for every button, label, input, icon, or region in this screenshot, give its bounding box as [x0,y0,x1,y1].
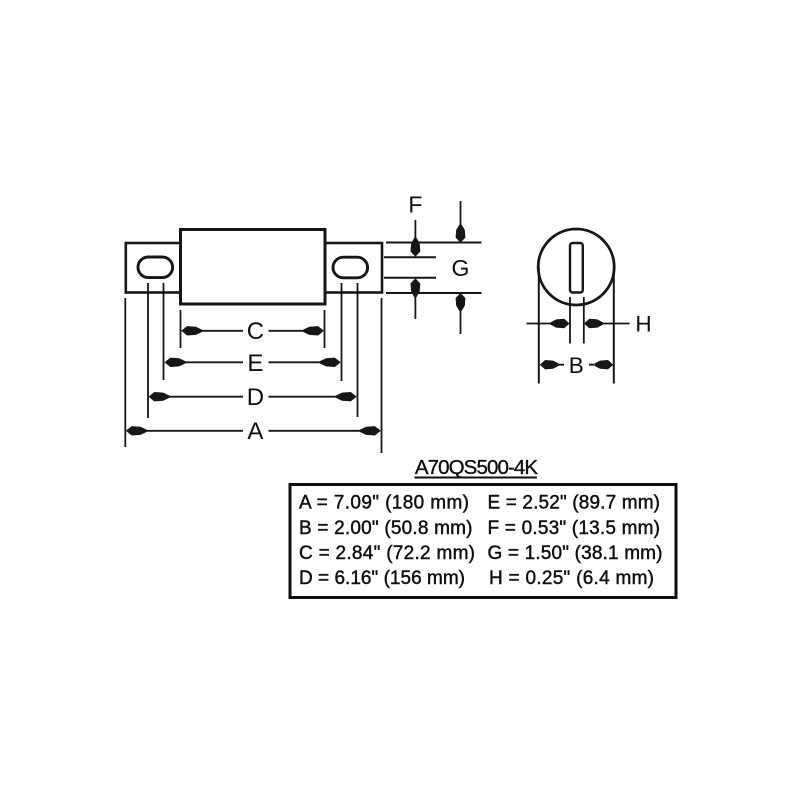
svg-text:A = 7.09" (180 mm): A = 7.09" (180 mm) [299,493,469,514]
svg-text:G: G [452,255,470,281]
svg-text:F: F [408,192,422,218]
svg-text:D: D [247,384,264,411]
svg-text:A70QS500-4K: A70QS500-4K [415,456,539,479]
svg-text:C = 2.84" (72.2 mm): C = 2.84" (72.2 mm) [299,543,475,564]
svg-text:B: B [569,353,584,378]
svg-text:H = 0.25" (6.4 mm): H = 0.25" (6.4 mm) [489,568,654,589]
svg-text:G = 1.50" (38.1 mm): G = 1.50" (38.1 mm) [488,543,663,564]
svg-text:E = 2.52" (89.7 mm): E = 2.52" (89.7 mm) [488,493,661,514]
svg-text:B = 2.00" (50.8 mm): B = 2.00" (50.8 mm) [299,518,473,539]
svg-text:D = 6.16" (156 mm): D = 6.16" (156 mm) [299,568,465,589]
svg-text:A: A [247,418,263,445]
svg-text:C: C [247,318,264,345]
svg-text:E: E [247,350,263,377]
svg-text:H: H [635,312,651,337]
svg-text:F = 0.53" (13.5 mm): F = 0.53" (13.5 mm) [488,518,661,539]
